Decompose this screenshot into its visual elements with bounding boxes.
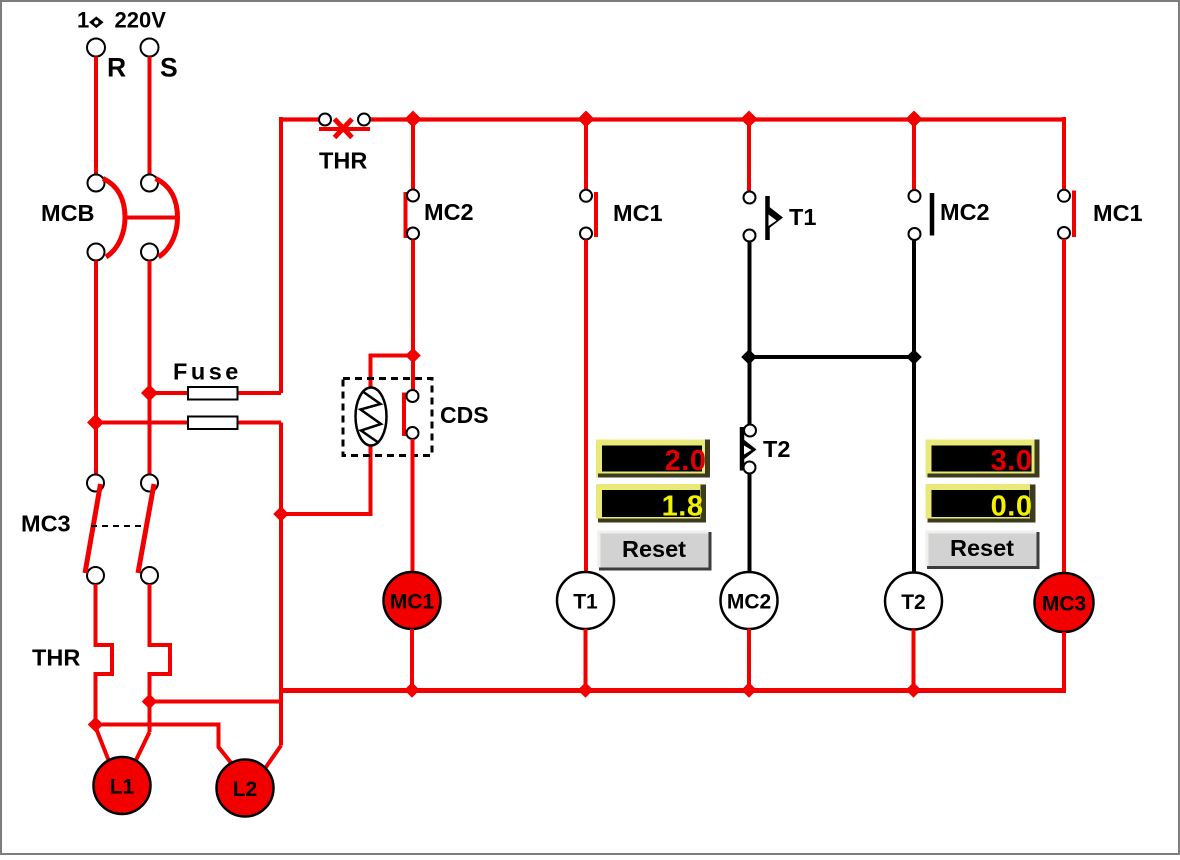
svg-text:T2: T2 (901, 591, 926, 614)
wire rung1 upper (411, 121, 415, 190)
svg-text:T2: T2 (763, 436, 790, 462)
wire rung2 lower (584, 240, 588, 573)
wire bottom rail (279, 688, 1066, 693)
svg-text:MC2: MC2 (424, 199, 474, 225)
wire rung5 stub (1062, 632, 1066, 692)
junction bottom rung1 (404, 682, 420, 698)
CDS sensor box (343, 379, 432, 456)
label MC1 rung2 (613, 200, 663, 226)
label MC3 (21, 511, 71, 537)
timer display T2 elapsed (926, 484, 1036, 523)
junction fuse1 tap (141, 385, 158, 402)
lamp L2 (217, 746, 282, 817)
timer display T1 preset (596, 440, 710, 478)
svg-text:MC1: MC1 (390, 591, 435, 614)
svg-text:L2: L2 (233, 778, 258, 801)
svg-text:1: 1 (77, 8, 89, 33)
junction CDS tap (405, 348, 421, 364)
svg-text:MC2: MC2 (940, 199, 990, 225)
coil MC1 (384, 572, 441, 629)
junction bottom rung3 (741, 682, 757, 698)
wire rung4 stub (912, 630, 916, 691)
label THR bottom (32, 645, 80, 671)
contact MC3 main (85, 475, 158, 585)
coil T1 (557, 572, 614, 629)
svg-text:L1: L1 (110, 776, 135, 799)
wire left pole MCB to MC3 (94, 261, 98, 476)
terminal R (87, 39, 105, 57)
terminal S (141, 39, 159, 57)
wire rung3 black upper (748, 242, 752, 359)
wire rung3 upper (747, 121, 751, 192)
wire rung2 stub (584, 629, 588, 690)
svg-text:R: R (107, 53, 126, 83)
coil MC3 (1035, 573, 1094, 632)
fuse F1 wire (150, 391, 282, 395)
wire rung3 black mid (748, 357, 752, 425)
breaker MCB (88, 175, 178, 261)
heater THR left (96, 584, 113, 727)
reset button T2 (927, 532, 1038, 568)
junction rung2 top (578, 111, 595, 128)
label Fuse (173, 359, 242, 385)
svg-text:Fuse: Fuse (173, 359, 242, 385)
fuse F2 wire (96, 421, 282, 425)
contact CDS (404, 390, 419, 439)
coil MC2 (721, 572, 778, 629)
label R (107, 53, 126, 83)
wire line1 to right (150, 700, 284, 704)
junction rung3 top (741, 111, 758, 128)
label 1-phase 220V source (77, 8, 166, 33)
wire rung5 lower (1062, 239, 1066, 574)
junction L1 left (88, 717, 104, 733)
label CDS (440, 402, 489, 428)
svg-text:MC3: MC3 (1042, 593, 1086, 616)
wire rung1 mid (411, 240, 415, 357)
label S (160, 53, 178, 83)
svg-text:MC1: MC1 (613, 200, 663, 226)
svg-text:THR: THR (32, 645, 80, 671)
contact MC2 rung4 (909, 190, 933, 240)
svg-text:T1: T1 (789, 204, 816, 230)
wire top rail (279, 117, 1066, 121)
wire rung1 lower (411, 439, 415, 573)
reset button T1 (599, 532, 710, 569)
svg-text:MCB: MCB (41, 200, 95, 226)
CDS photocell (356, 388, 387, 446)
svg-text:THR: THR (319, 148, 367, 174)
wire CDS branch (371, 356, 414, 391)
coil T2 (885, 573, 942, 630)
contact THR trip (319, 114, 370, 138)
label THR top (319, 148, 367, 174)
svg-text:3.0: 3.0 (991, 445, 1033, 477)
wire rung4 black (912, 240, 916, 573)
wire left rail upper (279, 117, 283, 393)
contact MC1 rung2 (580, 190, 596, 240)
svg-text:220V: 220V (115, 8, 167, 33)
lamp L1 (94, 727, 151, 814)
wire R drop to MCB (94, 57, 98, 176)
wire left rail lower (279, 423, 283, 746)
wire black cross (749, 355, 914, 359)
label T1 contact (789, 204, 816, 230)
svg-text:MC1: MC1 (1093, 200, 1143, 226)
wire S drop to MCB (148, 57, 152, 176)
svg-text:Reset: Reset (622, 536, 686, 562)
wire rung3 stub (747, 629, 751, 690)
wire rung4 upper (912, 121, 916, 190)
junction fuse2 tap (87, 414, 104, 431)
junction rung4 top (906, 111, 923, 128)
junction bottom rung2 (578, 682, 594, 698)
svg-text:Reset: Reset (950, 535, 1014, 561)
svg-text:0.0: 0.0 (991, 491, 1033, 523)
contact MC1 rung5 (1058, 190, 1074, 239)
wire rung2 upper (584, 121, 588, 190)
fuse F1 (188, 387, 238, 400)
wire junction to CDS contact (411, 356, 415, 392)
label MC2 rung4 (940, 199, 990, 225)
wire right pole MCB to MC3 (148, 261, 152, 476)
label MC2 rung1 (424, 199, 474, 225)
label T2 contact (763, 436, 790, 462)
svg-text:S: S (160, 53, 178, 83)
wire CDS return (281, 444, 371, 514)
timer display T2 preset (926, 440, 1040, 478)
junction rung1 top (405, 111, 422, 128)
fuse F2 (188, 417, 238, 430)
junction CDS return (273, 506, 289, 522)
svg-text:T1: T1 (573, 591, 598, 614)
timer display T1 elapsed (596, 484, 706, 523)
contact MC2 NC rung1 (406, 190, 420, 240)
junction black right (906, 349, 922, 365)
wire rung5 upper (1062, 117, 1066, 190)
svg-text:MC2: MC2 (727, 591, 771, 614)
label MCB (41, 200, 95, 226)
junction black left (741, 349, 757, 365)
svg-text:2.0: 2.0 (665, 445, 707, 477)
heater THR right (150, 584, 171, 732)
label MC1 rung5 (1093, 200, 1143, 226)
wire rung1 stub (410, 629, 414, 690)
junction bottom rung4 (906, 682, 922, 698)
wire line2 to L2 (96, 725, 232, 764)
svg-text:MC3: MC3 (21, 511, 71, 537)
junction L1 right (142, 694, 158, 710)
timer contact T2 (742, 425, 757, 474)
wire rung3 black lower (748, 474, 752, 573)
svg-text:CDS: CDS (440, 402, 489, 428)
svg-text:1.8: 1.8 (662, 491, 704, 523)
timer contact T1 (744, 192, 784, 242)
